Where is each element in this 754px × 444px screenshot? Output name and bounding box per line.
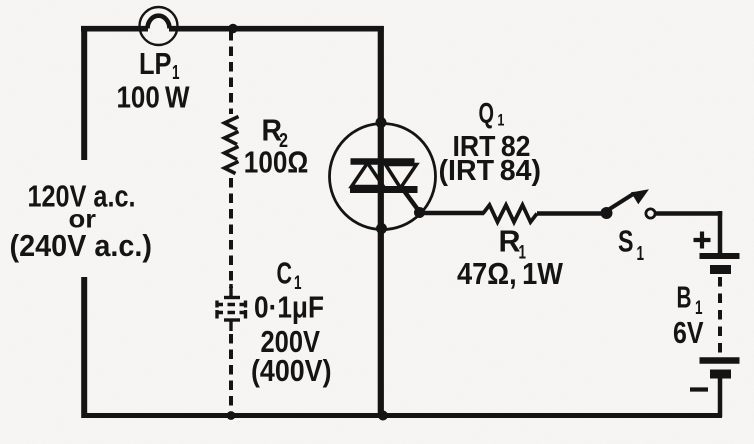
svg-text:0·1μF: 0·1μF <box>254 290 324 325</box>
battery B1 bottom cell short plate <box>710 370 731 379</box>
svg-text:100 W: 100 W <box>117 80 191 115</box>
svg-text:100Ω: 100Ω <box>244 145 308 180</box>
node: junction top wire / R2 branch <box>228 24 238 34</box>
battery minus sign <box>690 387 708 391</box>
node: triac top junction <box>376 117 387 128</box>
wire: left vertical upper segment <box>81 26 87 160</box>
switch S1 pole dot <box>601 207 613 219</box>
battery B1 top cell long plate <box>700 253 740 259</box>
battery plus sign <box>694 238 711 242</box>
svg-text:C: C <box>277 256 293 291</box>
node: junction bottom wire / C1 branch <box>227 411 236 420</box>
wire: R1 to switch <box>537 211 603 216</box>
svg-text:(IRT 84): (IRT 84) <box>439 155 542 187</box>
wire: right vertical to battery <box>718 211 723 254</box>
svg-text:47Ω, 1W: 47Ω, 1W <box>457 256 564 291</box>
node: gate junction dot <box>414 207 425 218</box>
lamp LP1 circle <box>140 7 178 45</box>
wire: left vertical lower segment <box>81 277 87 418</box>
svg-text:S: S <box>618 224 634 259</box>
battery B1 dashed middle <box>718 277 722 355</box>
triac Q1 circle <box>330 124 436 230</box>
svg-text:1: 1 <box>637 243 645 265</box>
svg-text:Q: Q <box>479 98 495 130</box>
node: triac branch / bottom wire junction <box>378 411 388 421</box>
svg-text:(240V a.c.): (240V a.c.) <box>10 228 153 263</box>
wire: dashed branch middle (R2 to C1) <box>229 178 233 288</box>
switch S1 open contact circle <box>646 209 655 218</box>
triac right triangle (points down) <box>386 165 417 189</box>
battery B1 top cell short plate <box>710 265 731 274</box>
wire: battery bottom to bottom wire <box>718 378 723 417</box>
switch S1 lever <box>608 194 634 211</box>
svg-text:LP: LP <box>139 46 172 81</box>
wire: triac vertical <box>378 26 384 416</box>
wire: top horizontal (lamp to triac corner) <box>169 26 384 32</box>
svg-text:1: 1 <box>497 111 504 130</box>
svg-text:(400V): (400V) <box>251 353 332 388</box>
resistor R2 (dashed zigzag) <box>225 117 239 174</box>
wire: dashed branch lower (C1 to bottom wire) <box>229 334 233 414</box>
svg-text:R: R <box>499 224 521 259</box>
switch S1 arrowhead <box>631 189 649 204</box>
triac left triangle (points up) <box>352 163 384 187</box>
capacitor C1 (dashed symbol) <box>216 284 248 331</box>
wire: switch to battery top <box>655 211 722 216</box>
wire: top horizontal (left segment to lamp) <box>81 26 148 32</box>
triac bottom bar (MT1) <box>350 186 418 193</box>
wire: dashed branch upper (R2 branch) <box>229 31 233 114</box>
resistor R1 zigzag <box>483 205 537 222</box>
triac top bar (MT2) <box>351 158 415 165</box>
lamp LP1 filament bump <box>148 16 170 29</box>
wire: bottom horizontal <box>82 413 722 418</box>
battery B1 bottom cell long plate <box>700 357 740 364</box>
node: triac bottom junction <box>376 223 387 234</box>
svg-text:6V: 6V <box>673 315 704 350</box>
svg-text:B: B <box>677 280 692 315</box>
wire: gate to R1 <box>420 211 485 215</box>
triac gate lead <box>401 186 421 213</box>
